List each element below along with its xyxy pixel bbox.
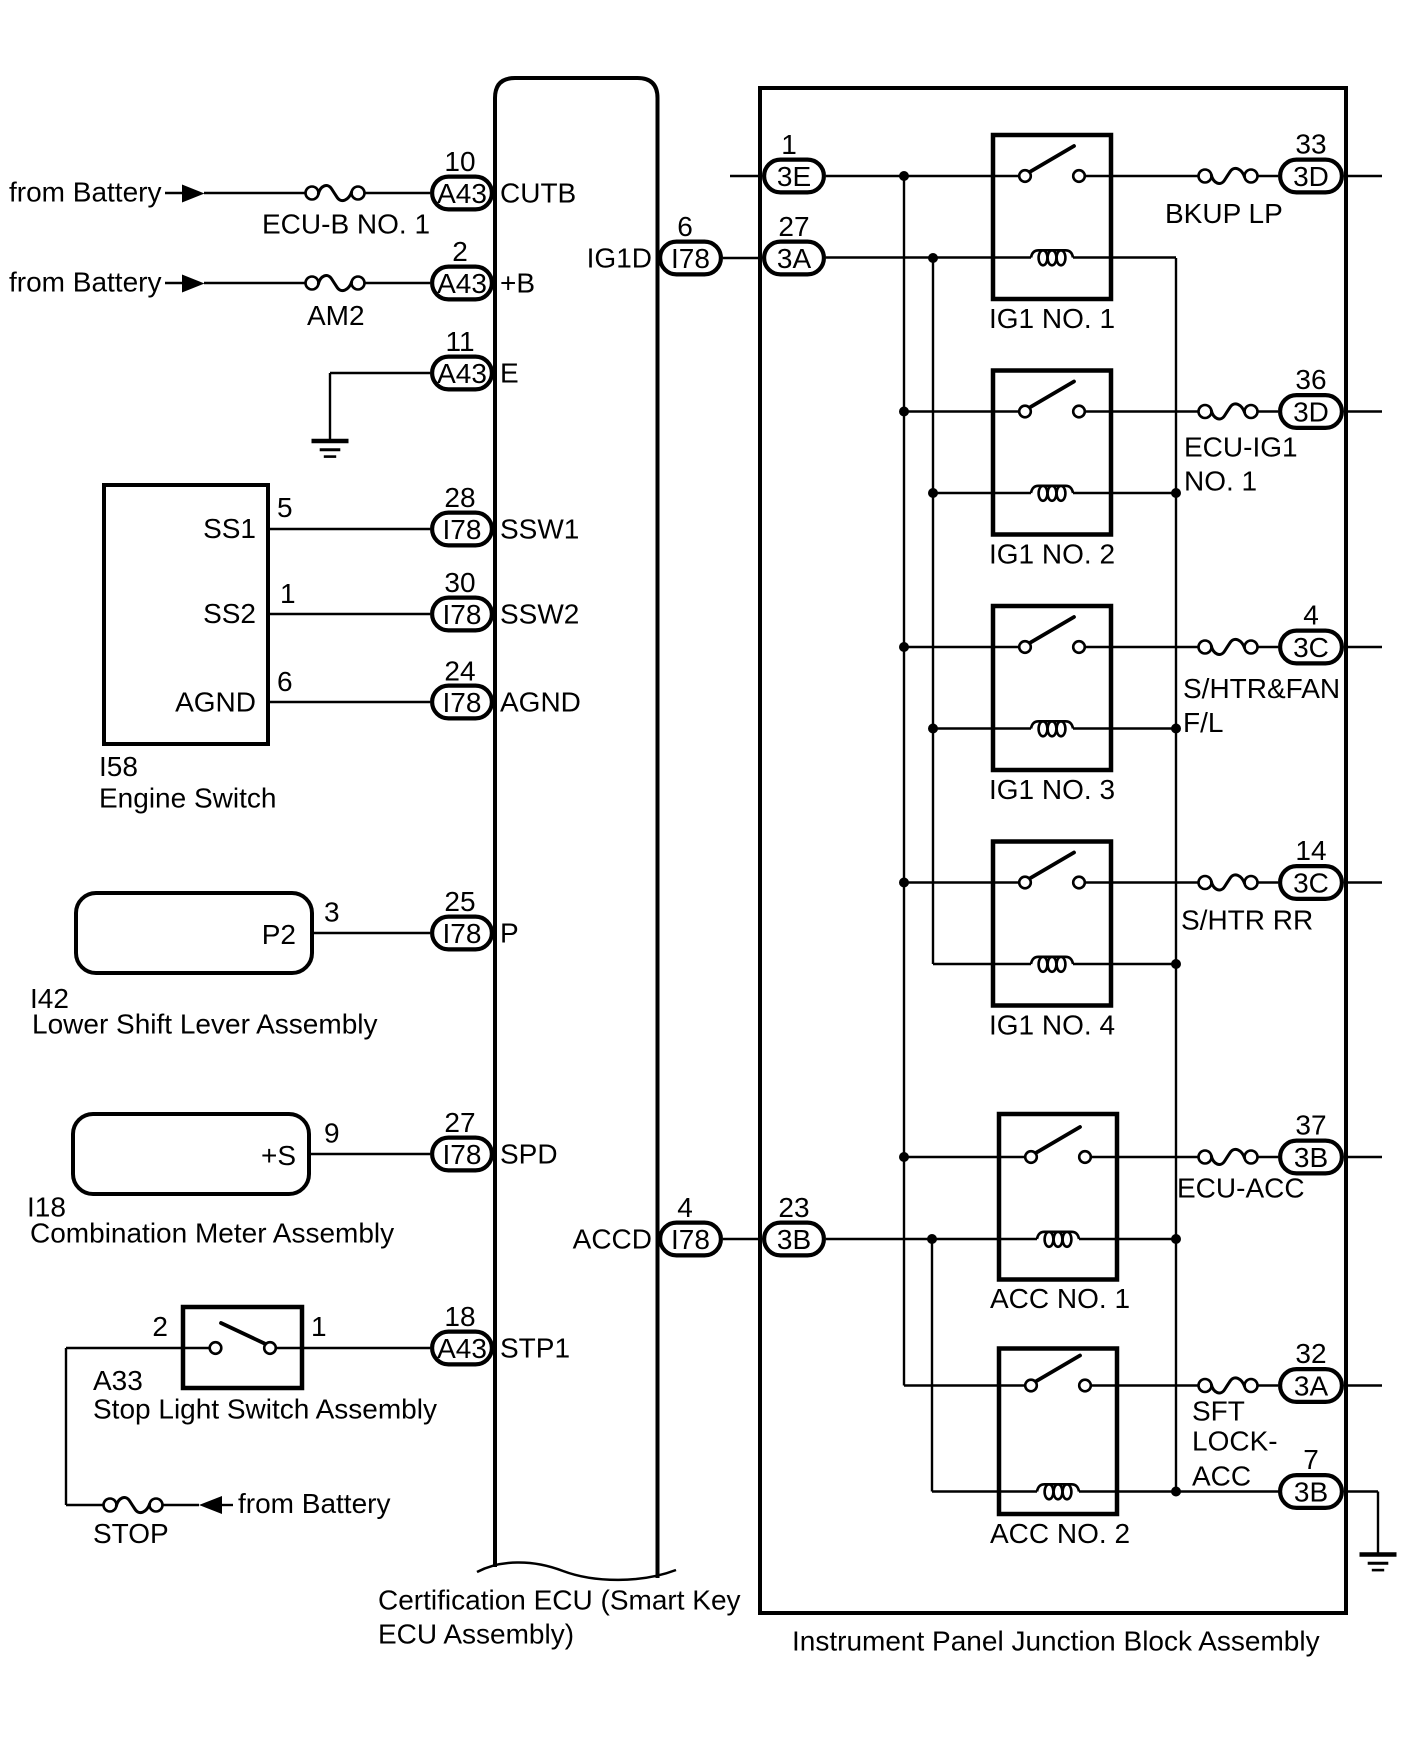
svg-text:A43: A43 bbox=[437, 178, 487, 209]
wire IG1 NO. 2 switch to fuse bbox=[1085, 410, 1199, 412]
svg-text:E: E bbox=[500, 358, 519, 389]
bus from 3B (ACC coil feed) bbox=[931, 1239, 933, 1492]
svg-text:SFT: SFT bbox=[1192, 1396, 1245, 1427]
svg-text:2: 2 bbox=[452, 236, 468, 267]
wire bbox=[723, 1238, 762, 1240]
wire bus to IG1 NO. 4 coil bbox=[933, 963, 1031, 965]
bus from 3A (IG1 coil feed) bbox=[932, 258, 934, 964]
wire bbox=[365, 282, 431, 284]
junction dot bbox=[899, 1152, 909, 1162]
svg-text:1: 1 bbox=[781, 129, 797, 160]
wire fuse ECU-IG1 NO. 1 to connector bbox=[1258, 410, 1279, 412]
relay ACC NO. 2 box bbox=[999, 1349, 1117, 1515]
arrow from Battery STOP (pointing left) bbox=[199, 1496, 233, 1514]
svg-text:14: 14 bbox=[1295, 835, 1326, 866]
svg-text:3D: 3D bbox=[1293, 161, 1329, 192]
svg-text:1: 1 bbox=[280, 578, 296, 609]
wire 3C pin 14 output bbox=[1348, 881, 1382, 883]
svg-text:from Battery: from Battery bbox=[9, 267, 161, 298]
svg-text:ECU-ACC: ECU-ACC bbox=[1177, 1173, 1305, 1204]
svg-text:SS1: SS1 bbox=[203, 513, 256, 544]
junction dot bbox=[1171, 1234, 1181, 1244]
coil ACC NO. 2 bbox=[1037, 1484, 1079, 1499]
fuse STOP bbox=[104, 1498, 163, 1513]
connector I78 (SPD) pin 27 bbox=[432, 1138, 492, 1171]
junction dot bbox=[928, 253, 938, 263]
junction dot bbox=[928, 724, 938, 734]
relay IG1 NO. 1 box bbox=[993, 135, 1111, 299]
svg-text:32: 32 bbox=[1295, 1338, 1326, 1369]
svg-text:3B: 3B bbox=[1294, 1142, 1328, 1173]
connector 3B pin 7 bbox=[1280, 1475, 1342, 1508]
wire IG1 NO. 2 coil return bbox=[1073, 492, 1176, 494]
svg-text:IG1 NO. 2: IG1 NO. 2 bbox=[989, 539, 1115, 570]
connector 3C pin 4 bbox=[1280, 631, 1342, 664]
switch contacts IG1 NO. 1 bbox=[1019, 146, 1085, 182]
svg-text:4: 4 bbox=[677, 1192, 693, 1223]
wire 3A pin 32 output bbox=[1348, 1384, 1382, 1386]
wire IG1 NO. 1 switch to fuse bbox=[1085, 175, 1199, 177]
svg-text:P: P bbox=[500, 918, 519, 949]
svg-text:STP1: STP1 bbox=[500, 1333, 570, 1364]
wire fuse S/HTR RR to connector bbox=[1258, 881, 1279, 883]
wire IG1 NO. 3 switch to fuse bbox=[1085, 646, 1199, 648]
wire IG1 NO. 3 coil return bbox=[1073, 727, 1176, 729]
svg-text:24: 24 bbox=[444, 656, 475, 687]
connector 3B pin 23 bbox=[764, 1223, 824, 1256]
wire bus to ACC NO. 2 coil bbox=[932, 1490, 1037, 1492]
svg-text:AGND: AGND bbox=[175, 687, 256, 718]
connector A43 (E) pin 11 bbox=[432, 357, 492, 390]
ground (junction block pin 7) bbox=[1360, 1555, 1397, 1571]
wire bbox=[268, 613, 430, 615]
junction dot bbox=[927, 1234, 937, 1244]
junction dot bbox=[1171, 959, 1181, 969]
wire bbox=[204, 192, 306, 194]
svg-text:3D: 3D bbox=[1293, 397, 1329, 428]
ground (ECU E terminal) bbox=[312, 441, 349, 457]
wire 3D pin 33 output bbox=[1348, 175, 1382, 177]
engine switch I58 box bbox=[104, 485, 268, 744]
svg-text:Certification ECU (Smart Key: Certification ECU (Smart Key bbox=[378, 1585, 741, 1616]
connector I78 (IG1D) pin 6 bbox=[660, 242, 721, 275]
connector A43 (CUTB) pin 10 bbox=[432, 177, 492, 210]
svg-text:6: 6 bbox=[277, 666, 293, 697]
wire bbox=[312, 932, 430, 934]
wire bbox=[365, 192, 431, 194]
wire bus to ACC NO. 1 switch bbox=[904, 1156, 1025, 1158]
connector 3E pin 1 bbox=[764, 160, 824, 193]
svg-text:A43: A43 bbox=[437, 1333, 487, 1364]
svg-text:I78: I78 bbox=[443, 599, 482, 630]
wire 3A to IG1 NO. 1 coil bbox=[826, 256, 1031, 258]
svg-text:I78: I78 bbox=[443, 918, 482, 949]
stop light switch A33 box bbox=[183, 1307, 302, 1388]
switch contacts A33 bbox=[210, 1323, 276, 1354]
fuse ECU-IG1 NO. 1 bbox=[1199, 404, 1258, 419]
svg-text:CUTB: CUTB bbox=[500, 178, 576, 209]
wire bus to IG1 NO. 3 switch bbox=[904, 646, 1019, 648]
svg-text:I58: I58 bbox=[99, 751, 138, 782]
svg-text:36: 36 bbox=[1295, 364, 1326, 395]
junction dot bbox=[899, 407, 909, 417]
svg-text:NO. 1: NO. 1 bbox=[1184, 466, 1257, 497]
wire bus to ACC NO. 2 switch bbox=[904, 1384, 1025, 1386]
coil IG1 NO. 4 bbox=[1031, 957, 1073, 972]
svg-text:9: 9 bbox=[324, 1118, 340, 1149]
ECU body break wave bbox=[477, 1562, 676, 1579]
wire IG1 NO. 1 coil return bbox=[1073, 256, 1176, 258]
connector A43 (+B) pin 2 bbox=[432, 267, 492, 300]
svg-text:37: 37 bbox=[1295, 1110, 1326, 1141]
svg-text:1: 1 bbox=[311, 1311, 327, 1342]
svg-text:AM2: AM2 bbox=[307, 300, 365, 331]
wire 3E to IG1 NO. 1 switch bbox=[826, 175, 1019, 177]
wire bbox=[163, 1504, 200, 1506]
wire bus to IG1 NO. 2 switch bbox=[904, 410, 1019, 412]
svg-text:A43: A43 bbox=[437, 358, 487, 389]
wire fuse SFT LOCK-ACC to connector bbox=[1258, 1384, 1279, 1386]
svg-text:3: 3 bbox=[324, 897, 340, 928]
svg-text:ACC NO. 1: ACC NO. 1 bbox=[990, 1283, 1130, 1314]
relay IG1 NO. 3 box bbox=[993, 606, 1111, 770]
svg-text:P2: P2 bbox=[262, 919, 296, 950]
connector I78 (SSW1) pin 28 bbox=[432, 513, 492, 546]
junction dot bbox=[899, 642, 909, 652]
connector A43 (STP1) pin 18 bbox=[432, 1332, 492, 1365]
svg-text:+B: +B bbox=[500, 268, 535, 299]
svg-text:Instrument Panel Junction Bloc: Instrument Panel Junction Block Assembly bbox=[792, 1626, 1320, 1657]
wire fuse ECU-ACC to connector bbox=[1258, 1156, 1279, 1158]
relay IG1 NO. 2 box bbox=[993, 371, 1111, 535]
svg-text:SS2: SS2 bbox=[203, 598, 256, 629]
wire bbox=[268, 528, 430, 530]
junction dot bbox=[1171, 488, 1181, 498]
svg-text:I78: I78 bbox=[443, 514, 482, 545]
fuse S/HTR RR bbox=[1199, 875, 1258, 890]
svg-text:Engine Switch: Engine Switch bbox=[99, 783, 276, 814]
fuse SFT LOCK-ACC bbox=[1199, 1378, 1258, 1393]
wire bbox=[330, 372, 430, 374]
svg-text:F/L: F/L bbox=[1183, 707, 1223, 738]
svg-text:27: 27 bbox=[444, 1107, 475, 1138]
svg-text:ACCD: ACCD bbox=[573, 1224, 652, 1255]
svg-text:I78: I78 bbox=[671, 243, 710, 274]
connector I78 (SSW2) pin 30 bbox=[432, 598, 492, 631]
wire bus to IG1 NO. 3 coil bbox=[933, 727, 1031, 729]
svg-text:ECU Assembly): ECU Assembly) bbox=[378, 1619, 574, 1650]
junction dot bbox=[1171, 724, 1181, 734]
connector 3A pin 27 bbox=[764, 242, 824, 275]
wire 3B pin 7 to ground bbox=[1344, 1490, 1378, 1492]
svg-text:I78: I78 bbox=[443, 1139, 482, 1170]
svg-text:6: 6 bbox=[677, 211, 693, 242]
svg-text:ECU-B NO. 1: ECU-B NO. 1 bbox=[262, 209, 430, 240]
arrow from Battery +B bbox=[165, 282, 182, 284]
arrow from Battery CUTB bbox=[165, 192, 182, 194]
fuse BKUP LP bbox=[1199, 168, 1258, 183]
wire ACC NO. 1 switch to fuse bbox=[1091, 1156, 1199, 1158]
switch contacts IG1 NO. 3 bbox=[1019, 617, 1085, 653]
svg-text:3C: 3C bbox=[1293, 868, 1329, 899]
fuse ECU-ACC bbox=[1199, 1149, 1258, 1164]
coil IG1 NO. 2 bbox=[1031, 486, 1073, 501]
coil IG1 NO. 1 bbox=[1031, 250, 1073, 265]
svg-text:3C: 3C bbox=[1293, 632, 1329, 663]
wire bbox=[268, 701, 430, 703]
wire bbox=[65, 1348, 67, 1505]
wire bbox=[309, 1153, 430, 1155]
wire IG1 NO. 4 coil return bbox=[1073, 963, 1176, 965]
Instrument Panel Junction Block Assembly body bbox=[760, 88, 1346, 1613]
svg-text:3A: 3A bbox=[1294, 1371, 1329, 1402]
connector 3B pin 37 bbox=[1280, 1141, 1342, 1174]
connector 3C pin 14 bbox=[1280, 866, 1342, 899]
svg-text:ACC: ACC bbox=[1192, 1461, 1251, 1492]
svg-text:from Battery: from Battery bbox=[238, 1488, 390, 1519]
svg-text:11: 11 bbox=[445, 326, 474, 357]
svg-text:AGND: AGND bbox=[500, 687, 581, 718]
switch contacts ACC NO. 2 bbox=[1025, 1356, 1091, 1392]
junction dot bbox=[928, 488, 938, 498]
svg-text:SSW2: SSW2 bbox=[500, 599, 579, 630]
svg-text:4: 4 bbox=[1303, 600, 1319, 631]
svg-text:LOCK-: LOCK- bbox=[1192, 1426, 1278, 1457]
wire 3B pin 37 output bbox=[1348, 1156, 1382, 1158]
wire bus to IG1 NO. 4 switch bbox=[904, 881, 1019, 883]
wire down to ground bbox=[1377, 1492, 1379, 1555]
svg-text:3E: 3E bbox=[777, 161, 811, 192]
coil IG1 NO. 3 bbox=[1031, 721, 1073, 736]
connector I78 (AGND) pin 24 bbox=[432, 686, 492, 719]
fuse AM2 bbox=[306, 276, 365, 291]
svg-text:28: 28 bbox=[444, 482, 475, 513]
wire bbox=[730, 175, 762, 177]
svg-text:Combination Meter Assembly: Combination Meter Assembly bbox=[30, 1218, 394, 1249]
svg-text:+S: +S bbox=[261, 1140, 296, 1171]
svg-text:S/HTR&FAN: S/HTR&FAN bbox=[1183, 673, 1340, 704]
fuse ECU-B NO. 1 bbox=[306, 186, 365, 201]
wire bbox=[276, 1347, 430, 1349]
svg-text:BKUP LP: BKUP LP bbox=[1165, 198, 1283, 229]
svg-text:S/HTR RR: S/HTR RR bbox=[1181, 905, 1313, 936]
wire fuse BKUP LP to connector bbox=[1258, 175, 1279, 177]
relay ACC NO. 1 box bbox=[999, 1114, 1117, 1280]
junction dot bbox=[899, 171, 909, 181]
wire 3B to ACC NO. 1 coil bbox=[826, 1238, 1037, 1240]
coil ACC NO. 1 bbox=[1037, 1232, 1079, 1247]
wire IG1 NO. 4 switch to fuse bbox=[1085, 881, 1199, 883]
wire fuse S/HTR&FAN F/L to connector bbox=[1258, 646, 1279, 648]
svg-text:Stop Light Switch Assembly: Stop Light Switch Assembly bbox=[93, 1394, 437, 1425]
wire bbox=[66, 1347, 210, 1349]
svg-text:25: 25 bbox=[444, 886, 475, 917]
svg-text:33: 33 bbox=[1295, 129, 1326, 160]
svg-text:Lower Shift Lever Assembly: Lower Shift Lever Assembly bbox=[32, 1009, 378, 1040]
svg-text:ECU-IG1: ECU-IG1 bbox=[1184, 432, 1298, 463]
svg-text:IG1 NO. 4: IG1 NO. 4 bbox=[989, 1010, 1115, 1041]
switch contacts IG1 NO. 4 bbox=[1019, 853, 1085, 889]
junction dot bbox=[899, 878, 909, 888]
svg-text:I78: I78 bbox=[671, 1224, 710, 1255]
svg-text:A33: A33 bbox=[93, 1365, 143, 1396]
svg-text:ACC NO. 2: ACC NO. 2 bbox=[990, 1518, 1130, 1549]
svg-text:IG1 NO. 3: IG1 NO. 3 bbox=[989, 774, 1115, 805]
Certification ECU (Smart Key ECU Assembly) body U1 bbox=[495, 78, 658, 1578]
connector 3D pin 33 bbox=[1280, 160, 1342, 193]
combination meter assembly I18 box bbox=[73, 1114, 309, 1194]
wire bbox=[723, 257, 762, 259]
svg-text:I78: I78 bbox=[443, 687, 482, 718]
relay IG1 NO. 4 box bbox=[993, 842, 1111, 1006]
svg-text:from Battery: from Battery bbox=[9, 177, 161, 208]
wire 3C pin 4 output bbox=[1348, 646, 1382, 648]
switch contacts ACC NO. 1 bbox=[1025, 1127, 1091, 1163]
svg-text:SSW1: SSW1 bbox=[500, 514, 579, 545]
wire bbox=[66, 1504, 104, 1506]
wire ACC NO. 2 switch to fuse bbox=[1091, 1384, 1199, 1386]
svg-text:10: 10 bbox=[444, 146, 475, 177]
wire bbox=[204, 282, 306, 284]
connector I78 (ACCD) pin 4 bbox=[660, 1223, 721, 1256]
svg-text:3B: 3B bbox=[777, 1224, 811, 1255]
svg-text:A43: A43 bbox=[437, 268, 487, 299]
bus from 3E (switch feed) bbox=[903, 176, 905, 1386]
svg-text:5: 5 bbox=[277, 492, 293, 523]
svg-text:IG1D: IG1D bbox=[587, 243, 652, 274]
wire ACC NO. 2 coil return to pin 7 bbox=[1079, 1490, 1280, 1492]
svg-text:18: 18 bbox=[444, 1301, 475, 1332]
svg-text:SPD: SPD bbox=[500, 1139, 558, 1170]
svg-text:IG1 NO. 1: IG1 NO. 1 bbox=[989, 303, 1115, 334]
wire bbox=[329, 373, 331, 441]
wire ACC NO. 1 coil return bbox=[1079, 1238, 1176, 1240]
svg-text:3A: 3A bbox=[777, 243, 812, 274]
lower shift lever assembly I42 box bbox=[76, 893, 312, 973]
switch contacts IG1 NO. 2 bbox=[1019, 382, 1085, 418]
fuse S/HTR&FAN F/L bbox=[1199, 639, 1258, 654]
connector 3D pin 36 bbox=[1280, 395, 1342, 428]
connector I78 (P) pin 25 bbox=[432, 917, 492, 950]
bus coil return to pin 7 bbox=[1175, 258, 1177, 1492]
svg-text:2: 2 bbox=[152, 1311, 168, 1342]
svg-text:3B: 3B bbox=[1294, 1477, 1328, 1508]
svg-text:27: 27 bbox=[778, 211, 809, 242]
svg-text:30: 30 bbox=[444, 567, 475, 598]
junction dot bbox=[1171, 1487, 1181, 1497]
connector 3A pin 32 bbox=[1280, 1369, 1342, 1402]
svg-text:7: 7 bbox=[1303, 1444, 1319, 1475]
svg-text:STOP: STOP bbox=[93, 1518, 169, 1549]
wire 3D pin 36 output bbox=[1348, 410, 1382, 412]
svg-text:23: 23 bbox=[778, 1192, 809, 1223]
wire bus to IG1 NO. 2 coil bbox=[933, 492, 1031, 494]
